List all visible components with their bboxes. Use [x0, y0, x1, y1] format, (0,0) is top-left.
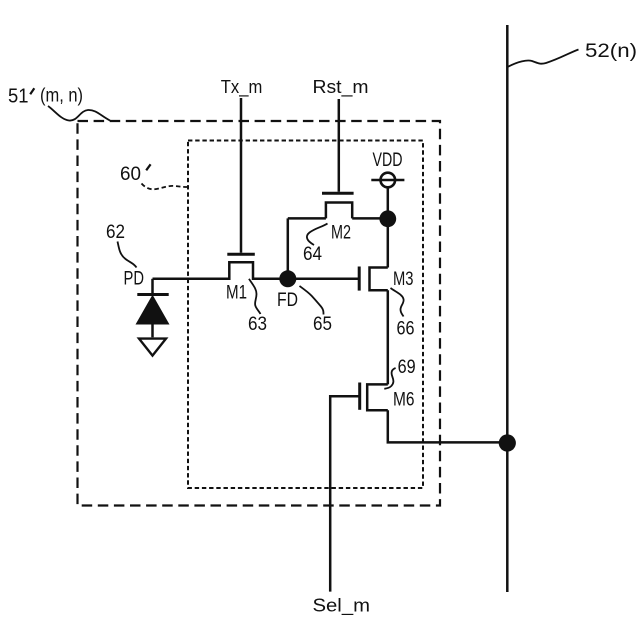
- svg-text:Tx_m: Tx_m: [221, 77, 262, 98]
- outer pixel boundary box 51'(m,n): [78, 121, 441, 506]
- svg-text:M1: M1: [226, 283, 247, 304]
- wire Rst_m vertical: [338, 99, 341, 192]
- leader squiggle from 62 to PD: [118, 242, 137, 268]
- svg-text:VDD: VDD: [373, 150, 403, 171]
- wire VDD node down to M3: [387, 219, 390, 268]
- ground symbol: [139, 339, 166, 356]
- svg-text:Sel_m: Sel_m: [313, 595, 371, 616]
- leader squiggle from 64 to M2: [307, 224, 328, 246]
- transistor M6 gate bar: [358, 383, 361, 410]
- label 51'(m,n): [8, 86, 83, 108]
- transistor M2 channel staple: [326, 203, 352, 219]
- svg-text:62: 62: [106, 222, 125, 243]
- wire M6 gate to Sel_m: [330, 396, 358, 591]
- node VDD junction dot: [379, 210, 396, 227]
- svg-text:M2: M2: [331, 223, 351, 244]
- wire M3 to M6: [387, 290, 390, 384]
- svg-text:69: 69: [398, 357, 416, 378]
- svg-text:65: 65: [313, 314, 332, 335]
- wire M2 source to FD and drain to VDD node: [288, 217, 388, 220]
- wire row line from PD through M1 to FD and M3 gate: [153, 218, 359, 278]
- svg-text:M6: M6: [393, 390, 415, 411]
- svg-text:M3: M3: [393, 269, 414, 290]
- svg-text:63: 63: [248, 314, 267, 335]
- wire vertical signal line 52(n): [506, 25, 509, 592]
- leader squiggle from M1 to 63: [249, 279, 261, 314]
- photodiode PD: [137, 279, 169, 338]
- junction dot on column line: [499, 434, 516, 451]
- wire VDD to node: [387, 187, 390, 219]
- dashed leader squiggle from 60' to inner box: [142, 184, 189, 190]
- transistor M2 gate bar: [322, 192, 354, 195]
- node FD junction dot: [279, 270, 296, 287]
- svg-text:FD: FD: [277, 290, 298, 311]
- svg-text:64: 64: [303, 244, 322, 265]
- wire Tx_m vertical: [240, 98, 243, 253]
- wire M6 drain to column line: [388, 410, 508, 442]
- transistor M3 channel staple: [370, 268, 388, 291]
- leader squiggle from 52(n) to line: [508, 50, 579, 68]
- leader squiggle from 51' to outer box: [48, 106, 110, 121]
- svg-text:52(n): 52(n): [585, 40, 637, 62]
- label 60': [120, 164, 151, 185]
- leader squiggle from M3 to 66: [391, 288, 404, 317]
- leader squiggle from FD to 65: [300, 286, 324, 315]
- power supply terminal symbol VDD: [371, 173, 404, 188]
- svg-text:Rst_m: Rst_m: [313, 77, 369, 98]
- svg-text:(m, n): (m, n): [40, 86, 83, 107]
- inner block boundary box 60': [188, 141, 423, 489]
- transistor M6 channel staple: [367, 384, 388, 410]
- svg-text:60: 60: [120, 164, 141, 185]
- svg-text:PD: PD: [124, 269, 145, 290]
- transistor M1 gate bar: [227, 253, 255, 256]
- transistor M3 gate bar: [358, 267, 361, 291]
- leader squiggle from 69 to M6: [384, 368, 395, 389]
- svg-text:66: 66: [397, 319, 415, 340]
- svg-text:51: 51: [8, 86, 29, 108]
